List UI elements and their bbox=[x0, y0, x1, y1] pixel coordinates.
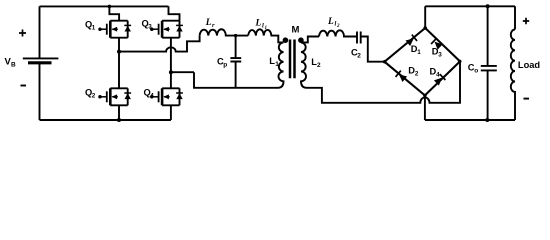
svg-text:4: 4 bbox=[150, 93, 154, 100]
svg-text:B: B bbox=[11, 62, 16, 69]
svg-text:r: r bbox=[212, 22, 215, 29]
svg-text:L: L bbox=[205, 18, 212, 28]
svg-text:1: 1 bbox=[265, 26, 268, 31]
svg-text:2: 2 bbox=[317, 62, 321, 69]
svg-text:1: 1 bbox=[92, 25, 96, 32]
svg-text:L: L bbox=[327, 17, 334, 27]
svg-text:1: 1 bbox=[275, 61, 279, 68]
svg-text:2: 2 bbox=[92, 93, 96, 100]
svg-text:2: 2 bbox=[357, 53, 361, 60]
svg-text:Load: Load bbox=[518, 60, 541, 70]
svg-text:1: 1 bbox=[417, 49, 421, 56]
svg-text:L: L bbox=[255, 19, 262, 29]
svg-text:M: M bbox=[292, 24, 300, 35]
svg-text:3: 3 bbox=[438, 51, 442, 58]
svg-text:2: 2 bbox=[336, 24, 340, 29]
svg-text:2: 2 bbox=[415, 71, 419, 78]
svg-text:p: p bbox=[223, 62, 227, 69]
svg-text:4: 4 bbox=[436, 72, 440, 79]
svg-text:o: o bbox=[474, 67, 478, 74]
svg-text:3: 3 bbox=[148, 24, 152, 31]
